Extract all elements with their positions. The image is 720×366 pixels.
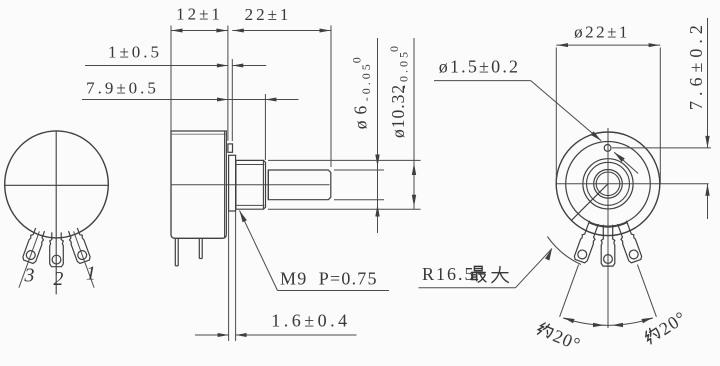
- svg-text:-0.05: -0.05: [397, 49, 411, 89]
- svg-text:1.6±0.4: 1.6±0.4: [271, 311, 350, 331]
- svg-text:7.9±0.5: 7.9±0.5: [86, 79, 159, 98]
- svg-text:R16.5: R16.5: [422, 264, 476, 284]
- svg-text:22±1: 22±1: [245, 5, 292, 24]
- svg-text:0: 0: [350, 57, 364, 63]
- svg-text:12±1: 12±1: [176, 5, 223, 24]
- svg-text:ø6: ø6: [351, 100, 371, 130]
- svg-text:3: 3: [24, 265, 35, 287]
- svg-text:ø1.5±0.2: ø1.5±0.2: [439, 57, 520, 77]
- svg-text:2: 2: [53, 268, 63, 290]
- svg-text:1±0.5: 1±0.5: [108, 43, 162, 62]
- svg-text:7.6±0.2: 7.6±0.2: [686, 20, 706, 110]
- svg-text:ø10.32: ø10.32: [388, 84, 408, 138]
- svg-text:-0.05: -0.05: [359, 61, 373, 101]
- svg-text:1: 1: [86, 263, 96, 285]
- svg-text:M9 P=0.75: M9 P=0.75: [280, 269, 378, 289]
- svg-text:0: 0: [387, 46, 401, 52]
- svg-text:ø22±1: ø22±1: [574, 23, 630, 42]
